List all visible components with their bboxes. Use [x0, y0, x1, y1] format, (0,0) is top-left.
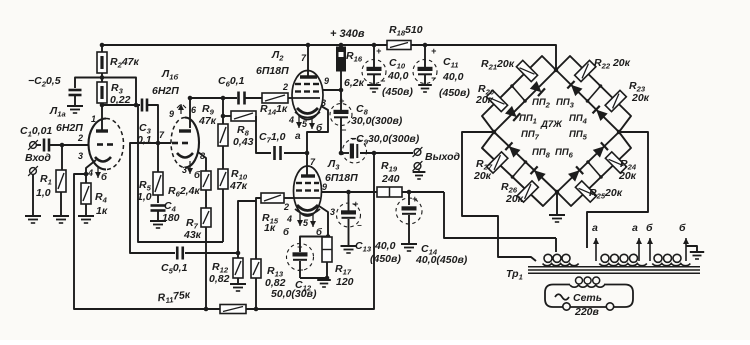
svg-text:220в: 220в: [574, 306, 600, 318]
svg-text:1,0: 1,0: [36, 187, 51, 199]
svg-text:+ 340в: + 340в: [330, 28, 365, 40]
svg-text:43к: 43к: [183, 229, 202, 241]
capacitor C3 0,1: [141, 99, 144, 112]
resistor R4 1k: [81, 183, 91, 204]
wire C8 to output row: [340, 118, 342, 153]
svg-text:−C9​30,0(300в): −C9​30,0(300в): [350, 133, 420, 147]
svg-text:R25​20к: R25​20к: [589, 187, 623, 201]
resistor R5 1,0: [157, 143, 159, 172]
wire C12 R17 bottoms: [300, 277, 327, 279]
svg-text:R21​20к: R21​20к: [481, 58, 515, 72]
svg-text:Сеть: Сеть: [573, 292, 602, 304]
svg-text:180: 180: [162, 212, 180, 224]
svg-text:2: 2: [283, 202, 289, 212]
heater arrow Л1б: [189, 161, 191, 174]
svg-text:C1​0,01: C1​0,01: [20, 125, 52, 139]
svg-text:47к: 47к: [198, 115, 217, 127]
svg-text:б: б: [646, 222, 653, 234]
resistor R12 0,82: [237, 253, 239, 258]
ground R1: [53, 215, 69, 217]
svg-text:3: 3: [321, 98, 326, 108]
resistor R10 47k: [218, 169, 228, 189]
svg-text:C7​1,0: C7​1,0: [259, 131, 286, 145]
svg-text:б: б: [316, 122, 323, 134]
svg-text:30,0(300в): 30,0(300в): [351, 115, 403, 127]
resistor R8 0,43: [223, 115, 231, 117]
svg-text:1,0: 1,0: [137, 191, 152, 203]
svg-text:0,82: 0,82: [209, 273, 230, 285]
wire cathode Л1б to R6: [198, 152, 206, 171]
svg-text:R6​2,4к: R6​2,4к: [168, 185, 200, 199]
ground R17/C12: [317, 279, 331, 281]
svg-text:3: 3: [182, 165, 187, 175]
resistor R15 1k: [261, 193, 284, 203]
ground R4: [78, 215, 94, 217]
svg-text:40,0: 40,0: [374, 240, 396, 252]
wire grid Л1а: [49, 144, 89, 146]
svg-text:−: −: [341, 125, 347, 135]
ground bridge: [549, 214, 565, 216]
svg-text:0,22: 0,22: [110, 94, 131, 106]
wire R16 to pin9 and C8: [340, 70, 342, 90]
svg-text:40,0: 40,0: [387, 70, 409, 82]
resistor R2 47k: [101, 45, 103, 52]
tube Л2 6П18П: [292, 71, 323, 120]
wire column x130 to C5: [130, 143, 175, 253]
svg-text:8: 8: [200, 151, 205, 161]
svg-text:+: +: [353, 199, 359, 209]
svg-text:(450в): (450в): [370, 253, 401, 265]
wire anode row Л3 / R19: [322, 191, 378, 193]
wire to transformer HV left: [444, 192, 556, 238]
diode ПП3: [567, 81, 582, 96]
svg-text:−: −: [431, 73, 437, 83]
diode ПП1: [505, 106, 520, 121]
svg-text:50,0(30в): 50,0(30в): [271, 288, 317, 300]
svg-text:0,43: 0,43: [233, 136, 254, 148]
svg-text:0,1: 0,1: [137, 134, 152, 146]
svg-text:6П18П: 6П18П: [256, 65, 289, 77]
wire mains loop: [545, 285, 633, 308]
wire R2R3 junction to anode row: [102, 78, 136, 106]
svg-text:20к: 20к: [631, 92, 650, 104]
wire bridge left vertex to HV winding left: [462, 132, 536, 261]
transformer heater winding b: [652, 264, 690, 266]
svg-text:+: +: [376, 46, 382, 56]
svg-text:C6​0,1: C6​0,1: [218, 75, 245, 89]
wire bridge bottom to ground: [556, 192, 558, 215]
resistor R9 47k: [218, 124, 228, 146]
capacitor C11 40,0(450v): [424, 45, 426, 67]
ground R12: [230, 283, 246, 285]
resistor R18 510: [387, 41, 411, 50]
wire R8 to C7: [256, 116, 271, 153]
svg-text:6,2к: 6,2к: [344, 77, 365, 89]
svg-text:6Н2П: 6Н2П: [152, 85, 179, 97]
wire grid-node branch to R12: [238, 201, 256, 253]
svg-text:40,0(450в): 40,0(450в): [415, 254, 468, 266]
resistor R21 20k: [516, 60, 537, 81]
terminal input upper: [30, 142, 37, 149]
lead arrow a right: [638, 238, 640, 261]
wire Л3 pin7 lead: [306, 153, 308, 176]
svg-text:Выход: Выход: [425, 151, 461, 163]
svg-text:2: 2: [282, 82, 288, 92]
capacitor C9 30,0(300v): [343, 139, 367, 163]
ground C11: [418, 84, 432, 86]
capacitor C5 0,1: [176, 247, 179, 260]
ground output: [413, 171, 426, 173]
wire bridge inner diamond: [494, 70, 556, 132]
wire screen column x138: [138, 105, 223, 242]
capacitor C2 0,5: [69, 89, 82, 92]
diode ПП6: [568, 166, 583, 181]
transformer Тр1 HV winding: [543, 264, 579, 266]
transformer heater winding a: [599, 264, 647, 266]
svg-text:б: б: [679, 222, 686, 234]
wire C3 to grid Л1б: [148, 105, 171, 143]
wire R15 to R13: [256, 198, 261, 259]
ground C13: [341, 245, 357, 247]
tube Л1б 6Н2П: [171, 118, 199, 168]
resistor R27 20k: [487, 152, 508, 173]
svg-text:(450в): (450в): [439, 87, 470, 99]
terminal output upper: [414, 149, 421, 156]
capacitor C14 40,0(450v): [408, 192, 410, 205]
resistor R25 20k: [575, 181, 596, 202]
svg-text:−: −: [357, 221, 362, 230]
svg-text:120: 120: [336, 276, 354, 288]
svg-text:1к: 1к: [96, 205, 108, 217]
svg-text:1: 1: [91, 114, 96, 124]
svg-text:а: а: [592, 222, 598, 234]
resistor R7 43k: [201, 208, 211, 227]
svg-text:20к: 20к: [473, 170, 492, 182]
ground C4: [150, 220, 166, 222]
ground C10: [367, 84, 381, 86]
svg-text:+: +: [412, 194, 418, 204]
transformer core: [528, 266, 700, 268]
capacitor C8 30,0(300v): [330, 104, 352, 126]
diode ПП5: [593, 142, 608, 157]
resistor R19 240: [377, 187, 402, 197]
wire anode row Л1а: [101, 103, 103, 105]
svg-text:+: +: [339, 96, 345, 106]
tube Л3 6П18П: [294, 166, 322, 216]
wire bridge rungs: [512, 86, 525, 101]
svg-text:а: а: [632, 222, 638, 234]
resistor R16 6,2k: [340, 45, 342, 47]
wire bridge outer rails: [482, 56, 556, 132]
lead arrow b left: [649, 238, 651, 261]
terminal input lower: [30, 168, 37, 175]
lead arrow a left: [595, 238, 597, 261]
svg-text:+: +: [297, 242, 303, 252]
resistor R1 1,0: [61, 145, 63, 170]
diode ПП2: [530, 81, 545, 96]
wire grid row Л1б anode to C6: [190, 97, 237, 99]
wire C5 to R12: [185, 252, 238, 254]
svg-text:C5​0,1: C5​0,1: [161, 262, 188, 276]
terminal output lower: [414, 163, 421, 170]
heater arrows Л3 pins 4,5: [299, 212, 301, 226]
resistor R11 75k: [220, 305, 246, 314]
capacitor C4 180: [157, 195, 159, 203]
svg-text:Д7Ж: Д7Ж: [540, 119, 563, 130]
wire anode lead Л1б: [189, 98, 191, 128]
transformer primary winding: [570, 285, 604, 287]
lead arrow b right: [685, 238, 687, 261]
svg-text:47к: 47к: [229, 180, 248, 192]
wire bridge right vertex to HV right: [587, 132, 648, 248]
wire staircase Л2 pin3: [307, 106, 328, 153]
svg-text:(450в): (450в): [382, 86, 413, 98]
svg-text:R2​47к: R2​47к: [110, 56, 140, 70]
terminal mains left: [563, 303, 570, 310]
wire C7 to node: [284, 152, 307, 154]
label R11: [157, 289, 191, 306]
ground C14: [401, 243, 417, 245]
svg-text:20к: 20к: [618, 170, 637, 182]
ground C2: [67, 105, 83, 107]
svg-text:1к: 1к: [264, 222, 276, 234]
wire cathode Л1а to R4: [86, 160, 96, 183]
node R2/R3 junction: [101, 73, 103, 82]
wire Л3 pin3 cathode tab down: [319, 206, 328, 237]
wire R9 column: [222, 98, 224, 124]
svg-text:2: 2: [77, 133, 83, 143]
heater arrow Л1а: [97, 166, 99, 178]
resistor R6 2,4k: [201, 171, 211, 190]
svg-text:4: 4: [87, 168, 93, 178]
terminal mains right: [606, 303, 613, 310]
resistor R23 20k: [605, 90, 626, 111]
svg-text:9: 9: [322, 182, 327, 192]
tube Л1а 6Н2П: [89, 119, 124, 170]
capacitor C7 1,0: [273, 146, 276, 160]
svg-text:20к: 20к: [505, 193, 524, 205]
capacitor C1 0,01: [37, 144, 42, 146]
svg-text:4: 4: [288, 115, 294, 125]
wire Л2 pin7 anode lead: [307, 45, 309, 77]
svg-text:4: 4: [286, 214, 292, 224]
resistor R20 20k: [486, 90, 507, 111]
diode ПП4: [593, 106, 608, 121]
svg-text:3: 3: [330, 207, 335, 217]
shield arrow Л1б: [180, 104, 182, 114]
mains sine symbol: [555, 294, 569, 300]
resistor R24 20k: [605, 152, 626, 173]
ground heater: [690, 251, 704, 253]
svg-text:3: 3: [78, 151, 83, 161]
wire: +340V top rail: [102, 45, 556, 70]
svg-text:+: +: [431, 46, 437, 56]
capacitor C12 50,0(30v): [287, 244, 314, 271]
svg-text:−: −: [380, 76, 386, 86]
resistor R14 1k: [262, 93, 288, 103]
diode ПП8: [531, 166, 546, 181]
svg-text:R18​510: R18​510: [389, 24, 423, 38]
svg-text:240: 240: [381, 173, 400, 185]
diode ПП7: [505, 142, 520, 157]
svg-text:−: −: [298, 265, 304, 275]
wire C6 to R14: [245, 97, 262, 99]
capacitor C10 40,0(450v): [373, 45, 375, 67]
capacitor C6 0,1: [237, 92, 240, 105]
wire cathode net top: [300, 237, 328, 253]
wire C9 to output terminal: [360, 152, 413, 154]
resistor R13 0,82: [251, 259, 261, 278]
svg-text:9: 9: [169, 109, 174, 119]
svg-text:Вход: Вход: [25, 152, 51, 164]
resistor R26 20k: [517, 181, 538, 202]
wire feedback bus: [74, 153, 374, 309]
svg-text:6П18П: 6П18П: [325, 172, 358, 184]
wire anode lead Л1а pin1: [101, 105, 103, 130]
wire HV center tap from C14 node: [555, 238, 557, 252]
heater arrows Л2 pins 4,5: [298, 115, 300, 128]
resistor R17 120: [322, 237, 332, 262]
svg-text:9: 9: [324, 76, 329, 86]
svg-text:20к: 20к: [475, 94, 494, 106]
resistor R3 0,22: [97, 82, 107, 103]
ground input: [25, 215, 41, 217]
wire R7 column to bus: [205, 227, 207, 309]
wire heater b to ground: [686, 246, 697, 252]
capacitor C13 40,0: [348, 192, 350, 211]
svg-text:40,0: 40,0: [442, 71, 464, 83]
wire C2 branch: [75, 78, 102, 89]
svg-text:а: а: [295, 131, 301, 142]
svg-text:R22​ 20к: R22​ 20к: [594, 57, 631, 71]
resistor R22 20k: [575, 60, 596, 81]
